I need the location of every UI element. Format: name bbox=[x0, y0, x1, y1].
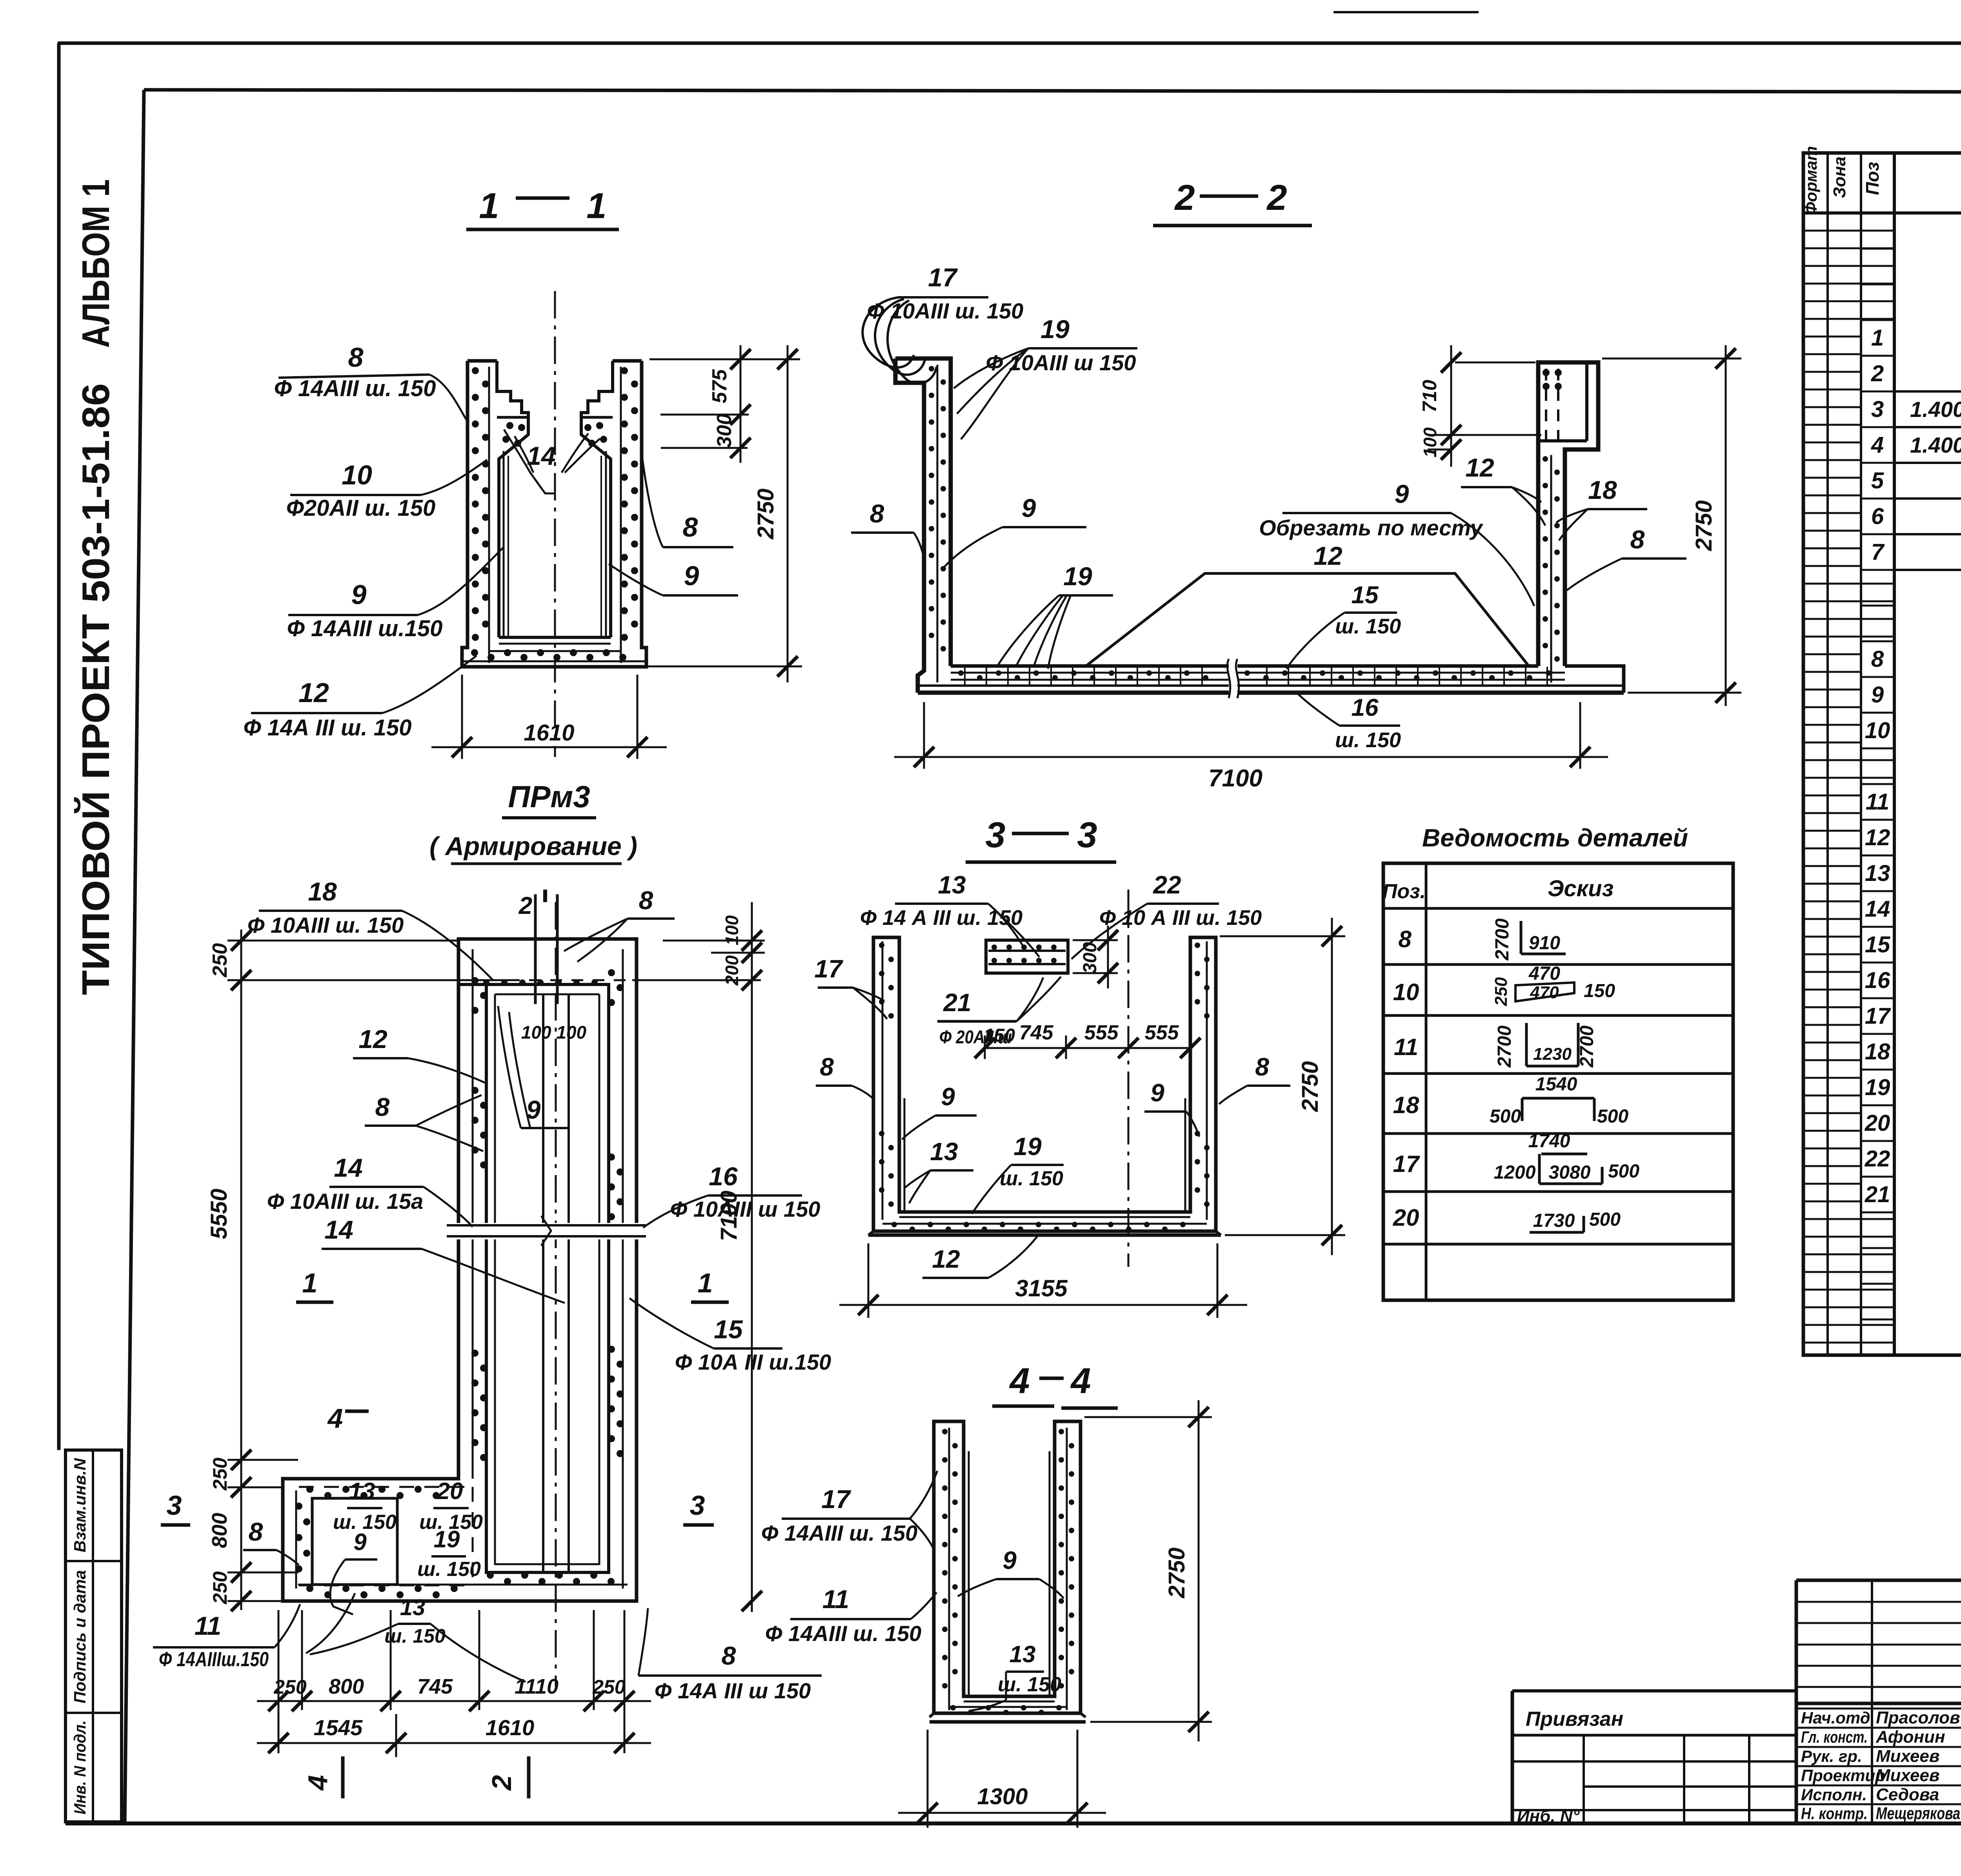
svg-text:1.400-15. В1. 130-02: 1.400-15. В1. 130-02 bbox=[1910, 433, 1961, 457]
svg-text:Ф 14А III ш 150: Ф 14А III ш 150 bbox=[655, 1678, 811, 1703]
svg-text:1540: 1540 bbox=[1535, 1074, 1577, 1095]
label 21 Ф20АIIIш 150 (sec 3-3) bbox=[937, 977, 1061, 1047]
svg-text:300: 300 bbox=[1080, 942, 1101, 973]
svg-text:4: 4 bbox=[1070, 1361, 1091, 1401]
svg-text:14: 14 bbox=[334, 1153, 362, 1182]
svg-text:14: 14 bbox=[324, 1215, 353, 1244]
svg-text:АЛЬБОМ 1: АЛЬБОМ 1 bbox=[74, 179, 117, 348]
svg-text:8: 8 bbox=[348, 342, 364, 373]
label 20 ш.150 in extension (plan) bbox=[419, 1478, 483, 1534]
svg-text:500: 500 bbox=[1608, 1161, 1639, 1182]
svg-text:13: 13 bbox=[400, 1595, 426, 1620]
label 12 Ф14АIII ш.150 (sec 1-1) bbox=[244, 656, 477, 741]
svg-text:3: 3 bbox=[985, 815, 1005, 855]
svg-text:500: 500 bbox=[1490, 1106, 1521, 1127]
vedomost row 8 bbox=[1398, 918, 1566, 961]
svg-text:800: 800 bbox=[208, 1513, 231, 1548]
svg-text:2750: 2750 bbox=[1297, 1061, 1323, 1112]
svg-text:1200: 1200 bbox=[1494, 1162, 1536, 1183]
svg-text:10: 10 bbox=[1865, 718, 1890, 743]
svg-text:2: 2 bbox=[1871, 361, 1884, 386]
svg-text:555: 555 bbox=[1084, 1021, 1119, 1044]
svg-text:11: 11 bbox=[195, 1611, 222, 1640]
label 9 Обрезать по месту (sec 2-2) bbox=[1259, 479, 1534, 606]
svg-text:5: 5 bbox=[1871, 468, 1884, 493]
svg-text:Ведомость деталей: Ведомость деталей bbox=[1422, 824, 1688, 852]
svg-text:6: 6 bbox=[1871, 504, 1884, 529]
svg-text:1230: 1230 bbox=[1533, 1044, 1572, 1064]
svg-text:1.400-15. В1. 550-06: 1.400-15. В1. 550-06 bbox=[1910, 397, 1961, 422]
svg-text:470: 470 bbox=[1530, 983, 1559, 1002]
label 18 Ф10АIII ш.150 (plan) bbox=[247, 877, 493, 981]
dimension 1610 (sec 1-1) bbox=[431, 675, 667, 759]
svg-text:19: 19 bbox=[1865, 1075, 1890, 1100]
label 8 left (sec 3-3) bbox=[816, 1053, 875, 1100]
plan centre axis bbox=[555, 902, 557, 1687]
section 1-1 centre axis bbox=[554, 291, 556, 757]
svg-text:9: 9 bbox=[1871, 682, 1884, 708]
vedomost row 18 bbox=[1393, 1074, 1629, 1127]
svg-text:17: 17 bbox=[821, 1485, 851, 1514]
label 12 (sec 3-3) bbox=[922, 1236, 1037, 1278]
svg-text:12: 12 bbox=[1465, 453, 1494, 482]
section 2-2 wall meshes bbox=[929, 365, 1565, 682]
svg-text:Ф 14АIII ш. 150: Ф 14АIII ш. 150 bbox=[765, 1621, 922, 1646]
svg-text:ш. 150: ш. 150 bbox=[1000, 1167, 1063, 1190]
left margin table (Взам.инв.N / Подпись и дата / Инв.N подл.) bbox=[65, 1450, 122, 1822]
plan subtitle (Армирование) bbox=[429, 832, 637, 864]
label 16 ш.150 (sec 2-2) bbox=[1295, 691, 1401, 752]
svg-text:Ф 10АIII ш. 150: Ф 10АIII ш. 150 bbox=[247, 913, 404, 937]
svg-text:Поз.: Поз. bbox=[1383, 880, 1426, 903]
title block sign-off grid bbox=[1796, 1580, 1961, 1823]
svg-text:Михеев: Михеев bbox=[1876, 1766, 1939, 1785]
svg-text:Исполн.: Исполн. bbox=[1801, 1785, 1867, 1804]
svg-text:ПРм3: ПРм3 bbox=[508, 779, 590, 814]
label 8 with fan (plan) bbox=[365, 1092, 483, 1151]
inner frame bottom bbox=[65, 1821, 1961, 1825]
label 12 near head (sec 2-2) bbox=[1461, 453, 1545, 526]
svg-text:Афонин: Афонин bbox=[1876, 1727, 1945, 1747]
svg-text:1610: 1610 bbox=[486, 1715, 535, 1740]
svg-text:Ф 14АIII ш.150: Ф 14АIII ш.150 bbox=[287, 616, 443, 641]
label 9 (plan) bbox=[498, 1006, 568, 1128]
svg-text:12: 12 bbox=[932, 1245, 960, 1273]
svg-text:20: 20 bbox=[1393, 1205, 1419, 1231]
section 2-2 floor stirrup ticks bbox=[965, 667, 1547, 686]
svg-text:8: 8 bbox=[639, 886, 653, 915]
label 9 in extension (plan) bbox=[330, 1529, 377, 1614]
section 1-1 wall reinforcement meshes bbox=[462, 367, 646, 663]
svg-text:Седова: Седова bbox=[1876, 1785, 1939, 1804]
label 8 Ф14АIII ш.150 (sec 1-1) bbox=[274, 342, 468, 422]
svg-text:575: 575 bbox=[708, 369, 731, 404]
svg-text:250: 250 bbox=[209, 943, 231, 978]
svg-text:18: 18 bbox=[1393, 1092, 1419, 1118]
svg-text:22: 22 bbox=[1865, 1146, 1890, 1172]
label 13 Ф14АIII ш.150 (sec 3-3) bbox=[860, 871, 1039, 957]
label 9 right (sec 3-3) bbox=[1144, 1079, 1199, 1137]
label 22 Ф10АIII ш.150 (sec 3-3) bbox=[1071, 871, 1262, 959]
svg-text:745: 745 bbox=[1019, 1021, 1054, 1044]
svg-text:8: 8 bbox=[683, 512, 698, 542]
svg-text:8: 8 bbox=[1630, 525, 1645, 554]
section 1-1 concrete outline bbox=[462, 361, 646, 667]
svg-text:4: 4 bbox=[1871, 432, 1884, 458]
sheet outer border top bbox=[58, 42, 1961, 45]
svg-text:ТИПОВОЙ ПРОЕКТ 503-1-51.86: ТИПОВОЙ ПРОЕКТ 503-1-51.86 bbox=[74, 383, 117, 995]
svg-text:100: 100 bbox=[1420, 427, 1440, 457]
svg-text:Ф 14АIII ш. 150: Ф 14АIII ш. 150 bbox=[761, 1521, 918, 1545]
svg-text:12: 12 bbox=[298, 677, 329, 708]
svg-text:Поз: Поз bbox=[1862, 162, 1883, 195]
svg-text:2750: 2750 bbox=[1164, 1547, 1190, 1598]
svg-text:7100: 7100 bbox=[1208, 765, 1262, 792]
svg-text:13: 13 bbox=[1010, 1641, 1036, 1667]
section 1-1 title bbox=[466, 186, 619, 229]
svg-text:9: 9 bbox=[1022, 493, 1036, 522]
dimension 7100 (sec 2-2) bbox=[894, 702, 1608, 792]
svg-text:10: 10 bbox=[1393, 979, 1419, 1005]
svg-text:Ф 10А III ш.150: Ф 10А III ш.150 bbox=[675, 1350, 831, 1374]
label 14 lower (plan) bbox=[322, 1215, 565, 1303]
svg-text:9: 9 bbox=[1002, 1546, 1017, 1574]
svg-text:910: 910 bbox=[1529, 933, 1560, 953]
svg-text:1: 1 bbox=[698, 1268, 713, 1298]
section 3-3 title bbox=[966, 815, 1116, 862]
plan break (соединение) bbox=[447, 1216, 646, 1246]
svg-text:21: 21 bbox=[1865, 1182, 1890, 1207]
vedomost row 11 bbox=[1394, 1023, 1597, 1068]
svg-text:9: 9 bbox=[351, 579, 367, 610]
svg-text:17: 17 bbox=[1865, 1003, 1891, 1029]
svg-text:3: 3 bbox=[167, 1490, 182, 1521]
svg-text:Ф 10АIII ш. 15а: Ф 10АIII ш. 15а bbox=[267, 1189, 424, 1214]
section 3-3 wall meshes bbox=[879, 941, 1210, 1232]
section 2-2 floor break lines bbox=[1227, 659, 1239, 698]
vedomost row 10 bbox=[1393, 963, 1615, 1006]
label 8 Ф14АIII ш 150 (plan bottom-right) bbox=[639, 1608, 822, 1703]
svg-text:13: 13 bbox=[1865, 861, 1890, 886]
svg-text:18: 18 bbox=[1865, 1039, 1890, 1064]
svg-text:22: 22 bbox=[1153, 871, 1181, 899]
label 10 Ф20АII ш.150 (sec 1-1) bbox=[286, 460, 487, 521]
svg-text:9: 9 bbox=[353, 1529, 367, 1555]
svg-text:Михеев: Михеев bbox=[1876, 1747, 1939, 1766]
svg-text:19: 19 bbox=[1041, 315, 1070, 344]
label 13 ш.150 lower (plan) bbox=[306, 1593, 526, 1682]
svg-text:Подпись и дата: Подпись и дата bbox=[71, 1570, 89, 1703]
svg-text:5550: 5550 bbox=[206, 1188, 232, 1239]
svg-text:250: 250 bbox=[209, 1457, 231, 1491]
section 3-3 centre axis bbox=[1128, 890, 1130, 1267]
section mark 3 right (plan) bbox=[683, 1490, 714, 1525]
svg-text:1730: 1730 bbox=[1533, 1210, 1575, 1231]
section mark 1 left (plan) bbox=[296, 1268, 333, 1302]
svg-text:1545: 1545 bbox=[314, 1715, 363, 1740]
svg-text:11: 11 bbox=[1394, 1034, 1418, 1060]
svg-text:2: 2 bbox=[518, 892, 532, 919]
svg-text:11: 11 bbox=[1866, 789, 1889, 815]
svg-text:Рук. гр.: Рук. гр. bbox=[1801, 1747, 1862, 1765]
svg-text:8: 8 bbox=[1255, 1053, 1269, 1081]
svg-text:7100: 7100 bbox=[716, 1190, 742, 1241]
svg-text:150: 150 bbox=[984, 1025, 1015, 1046]
svg-text:13: 13 bbox=[930, 1137, 958, 1166]
svg-text:500: 500 bbox=[1589, 1209, 1621, 1230]
label 15 ш.150 (sec 2-2) bbox=[1286, 582, 1401, 669]
section mark 2 bottom (plan) bbox=[486, 1756, 529, 1798]
plan right dimension 100/200 and 7100 bbox=[663, 902, 765, 1612]
svg-text:2700: 2700 bbox=[1494, 1025, 1515, 1068]
svg-text:15: 15 bbox=[1865, 932, 1890, 957]
svg-text:8: 8 bbox=[249, 1517, 263, 1546]
svg-text:ш. 150: ш. 150 bbox=[998, 1673, 1061, 1696]
svg-text:250: 250 bbox=[273, 1676, 307, 1698]
label 9 left (sec 3-3) bbox=[902, 1083, 977, 1139]
svg-text:1: 1 bbox=[479, 186, 499, 226]
svg-text:Эскиз: Эскиз bbox=[1548, 876, 1614, 901]
dimension 150 745 555 555 (sec 3-3) bbox=[975, 1021, 1201, 1059]
svg-text:3: 3 bbox=[1871, 397, 1884, 422]
vedomost row 17 bbox=[1393, 1131, 1640, 1184]
svg-text:ш. 150: ш. 150 bbox=[1335, 728, 1401, 752]
svg-text:Н. контр.: Н. контр. bbox=[1801, 1804, 1868, 1823]
svg-text:14: 14 bbox=[1865, 896, 1890, 922]
svg-text:Ф 14АIII ш. 150: Ф 14АIII ш. 150 bbox=[274, 376, 436, 401]
plan wall rebar dots bbox=[295, 969, 624, 1598]
svg-text:ш. 150: ш. 150 bbox=[417, 1558, 481, 1581]
svg-text:Ф 14АIIIш.150: Ф 14АIIIш.150 bbox=[159, 1648, 269, 1671]
dimension 2750 (sec 3-3) bbox=[1220, 918, 1345, 1255]
vedomost row 20 bbox=[1393, 1205, 1621, 1232]
svg-text:2700: 2700 bbox=[1577, 1025, 1597, 1068]
vedomost table grid bbox=[1383, 863, 1733, 1300]
svg-text:555: 555 bbox=[1145, 1021, 1179, 1044]
svg-text:3: 3 bbox=[690, 1490, 705, 1521]
svg-text:16: 16 bbox=[1352, 694, 1379, 721]
svg-text:9: 9 bbox=[684, 560, 699, 591]
svg-text:1110: 1110 bbox=[515, 1675, 558, 1698]
svg-text:Взам.инв.N: Взам.инв.N bbox=[71, 1457, 89, 1552]
svg-text:19: 19 bbox=[434, 1526, 460, 1552]
svg-text:9: 9 bbox=[1395, 479, 1409, 508]
svg-text:2750: 2750 bbox=[1691, 500, 1717, 551]
svg-text:1: 1 bbox=[586, 186, 606, 226]
svg-text:Формат: Формат bbox=[1802, 146, 1820, 215]
svg-text:Привязан: Привязан bbox=[1526, 1708, 1623, 1730]
svg-text:2: 2 bbox=[486, 1775, 517, 1791]
dimension 3155 (sec 3-3) bbox=[839, 1243, 1247, 1318]
svg-text:( Армирование ): ( Армирование ) bbox=[429, 832, 637, 861]
plan top end-wall inner line bbox=[458, 983, 486, 986]
plan extension opening bbox=[312, 1498, 397, 1585]
label 19 ш.150 in extension (plan) bbox=[417, 1526, 481, 1581]
section 2-2 concrete outline bbox=[895, 358, 1624, 693]
section 4-4 concrete outline bbox=[930, 1421, 1086, 1722]
svg-text:8: 8 bbox=[820, 1053, 834, 1081]
svg-text:8: 8 bbox=[722, 1641, 736, 1670]
svg-text:Ф 14 А III ш. 150: Ф 14 А III ш. 150 bbox=[860, 906, 1022, 930]
section 4-4 title bbox=[992, 1361, 1118, 1408]
bar 12 bent shape (sec 2-2) bbox=[1086, 573, 1529, 666]
section 2-2 head dashed bars bbox=[1543, 369, 1562, 439]
section mark 4 bottom (plan) bbox=[302, 1756, 343, 1798]
plan bottom dimension 1545/1610 bbox=[257, 1714, 651, 1757]
label 9 (sec 2-2) bbox=[944, 493, 1086, 567]
svg-text:2: 2 bbox=[1174, 178, 1195, 218]
svg-text:4: 4 bbox=[302, 1775, 333, 1791]
svg-text:7: 7 bbox=[1871, 539, 1885, 565]
svg-text:710: 710 bbox=[1419, 380, 1441, 413]
svg-text:3155: 3155 bbox=[1015, 1275, 1068, 1301]
svg-text:12: 12 bbox=[358, 1024, 387, 1054]
svg-text:Гл. конст.: Гл. конст. bbox=[1801, 1728, 1868, 1746]
vedomost header bbox=[1383, 876, 1614, 903]
svg-text:9: 9 bbox=[941, 1083, 955, 1111]
svg-text:100 100: 100 100 bbox=[521, 1022, 587, 1043]
dimension 2750 (sec 1-1) bbox=[646, 345, 802, 682]
svg-text:13: 13 bbox=[938, 871, 966, 899]
svg-text:500: 500 bbox=[1597, 1106, 1628, 1127]
scan artifact top edge bbox=[1333, 11, 1479, 13]
svg-text:11: 11 bbox=[822, 1585, 850, 1614]
svg-text:15: 15 bbox=[714, 1315, 743, 1344]
svg-text:ш. 150: ш. 150 bbox=[1335, 615, 1401, 638]
label 13 lower (sec 3-3) bbox=[904, 1137, 973, 1203]
svg-text:10: 10 bbox=[342, 460, 372, 490]
sign-off role names bbox=[1801, 1708, 1961, 1823]
svg-text:1: 1 bbox=[1871, 325, 1884, 351]
svg-text:12: 12 bbox=[1313, 541, 1343, 570]
plan pit opening bbox=[486, 984, 609, 1572]
svg-text:19: 19 bbox=[1013, 1132, 1042, 1161]
plan bottom dimension chain 250/800/745/1110/250 bbox=[257, 1610, 651, 1753]
label 13 ш.150 in extension (plan) bbox=[333, 1478, 397, 1534]
svg-text:1610: 1610 bbox=[524, 720, 574, 746]
svg-text:250: 250 bbox=[209, 1571, 231, 1605]
sheet outer border left bbox=[57, 43, 61, 1450]
svg-text:18: 18 bbox=[308, 877, 337, 906]
svg-text:Обрезать по месту: Обрезать по месту bbox=[1259, 515, 1484, 540]
svg-text:Проектир: Проектир bbox=[1801, 1766, 1885, 1785]
label 16 Ф10АIII ш 150 (plan) bbox=[643, 1162, 820, 1228]
svg-text:9: 9 bbox=[1150, 1079, 1164, 1107]
svg-text:800: 800 bbox=[329, 1675, 364, 1698]
label 9 right (sec 1-1) bbox=[609, 560, 738, 595]
svg-text:13: 13 bbox=[349, 1478, 375, 1504]
svg-text:3: 3 bbox=[1077, 815, 1097, 855]
svg-text:4: 4 bbox=[1009, 1361, 1030, 1401]
section mark 4 upper (plan) bbox=[327, 1403, 369, 1434]
spec table grid bbox=[1803, 153, 1961, 1355]
spec table data rows bbox=[1865, 325, 1961, 1314]
dimension 300 (sec 3-3) bbox=[1073, 926, 1118, 988]
spec table header bbox=[1802, 146, 1961, 215]
svg-text:17: 17 bbox=[928, 263, 958, 292]
label 17 (sec 3-3) bbox=[814, 955, 887, 1019]
svg-text:250: 250 bbox=[592, 1676, 626, 1698]
svg-text:8: 8 bbox=[1398, 926, 1412, 952]
label 15 Ф10АIII ш.150 (plan) bbox=[629, 1298, 831, 1374]
label 19 ш.150 (sec 3-3) bbox=[972, 1132, 1064, 1214]
dimension 1300 (sec 4-4) bbox=[898, 1730, 1106, 1828]
section 3-3 lintel bbox=[986, 940, 1068, 973]
section 2-2 title bbox=[1153, 178, 1312, 226]
svg-text:4: 4 bbox=[327, 1403, 343, 1434]
svg-text:1740: 1740 bbox=[1528, 1131, 1570, 1152]
plan bottom-mat bars 14/15 bbox=[543, 994, 569, 1572]
label 13 ш.150 (sec 4-4) bbox=[969, 1641, 1061, 1711]
svg-text:8: 8 bbox=[870, 499, 884, 528]
section mark 3 left (plan) bbox=[161, 1490, 190, 1525]
svg-text:17: 17 bbox=[1393, 1151, 1420, 1177]
svg-text:1300: 1300 bbox=[977, 1784, 1028, 1809]
label 17 Ф14АIII ш.150 (sec 4-4) bbox=[761, 1471, 937, 1548]
svg-text:8: 8 bbox=[1871, 646, 1884, 672]
label 11 Ф14АIII ш.150 (sec 4-4) bbox=[765, 1585, 937, 1646]
label 8 left (sec 2-2) bbox=[851, 499, 925, 562]
section mark 1 right (plan) bbox=[691, 1268, 729, 1302]
svg-text:Инв. N подл.: Инв. N подл. bbox=[71, 1720, 89, 1814]
label 8 right (sec 3-3) bbox=[1219, 1053, 1290, 1104]
svg-text:17: 17 bbox=[814, 955, 844, 983]
label 12 (plan) bbox=[353, 1024, 486, 1083]
title block outline bbox=[1512, 1580, 1961, 1823]
svg-text:2: 2 bbox=[1266, 178, 1287, 218]
label 8 near stub (plan) bbox=[564, 886, 675, 962]
dimension 575/300 (sec 1-1) bbox=[649, 345, 800, 463]
svg-text:2700: 2700 bbox=[1492, 918, 1513, 961]
svg-text:300: 300 bbox=[713, 414, 736, 448]
section 3-3 concrete outline bbox=[868, 937, 1221, 1235]
inner frame top bbox=[144, 90, 1961, 93]
svg-text:470: 470 bbox=[1528, 963, 1560, 984]
label 9 Ф14АIII ш.150 (sec 1-1) bbox=[287, 547, 504, 641]
plan hidden outline (dashed) of upper structure bbox=[299, 1487, 473, 1585]
svg-text:16: 16 bbox=[709, 1162, 738, 1191]
svg-text:3080: 3080 bbox=[1549, 1162, 1591, 1183]
svg-text:12: 12 bbox=[1865, 825, 1890, 850]
svg-text:Зона: Зона bbox=[1830, 156, 1849, 198]
svg-text:1: 1 bbox=[302, 1268, 318, 1298]
svg-text:Прасолов: Прасолов bbox=[1876, 1708, 1960, 1727]
svg-text:Инб. N°: Инб. N° bbox=[1517, 1807, 1580, 1826]
plan wall mesh lines bbox=[296, 949, 628, 1589]
svg-text:18: 18 bbox=[1588, 475, 1617, 504]
svg-text:250: 250 bbox=[1492, 977, 1511, 1006]
svg-text:150: 150 bbox=[1584, 981, 1615, 1001]
svg-text:Мещерякова: Мещерякова bbox=[1876, 1804, 1960, 1823]
svg-text:Нач.отд.: Нач.отд. bbox=[1801, 1709, 1875, 1727]
svg-text:20: 20 bbox=[1865, 1110, 1890, 1136]
svg-text:Ф20АII ш. 150: Ф20АII ш. 150 bbox=[286, 495, 436, 521]
label 17 Ф10АIII ш.150 (sec 2-2) bbox=[862, 263, 1023, 384]
svg-text:19: 19 bbox=[1063, 562, 1092, 591]
plan left dimension chain 250/5550/250/800/250 bbox=[206, 930, 761, 1611]
dimension 710/100 (sec 2-2) bbox=[1419, 345, 1541, 467]
svg-text:100: 100 bbox=[722, 915, 742, 945]
dimension 2750 (sec 4-4) bbox=[1084, 1400, 1212, 1741]
svg-text:8: 8 bbox=[375, 1092, 390, 1121]
label 14 Ф10АIII ш.15а (plan) bbox=[267, 1153, 473, 1227]
dimension 2750 (sec 2-2) bbox=[1602, 345, 1741, 706]
svg-text:745: 745 bbox=[417, 1675, 453, 1698]
svg-text:200: 200 bbox=[722, 955, 742, 986]
label 8 right (sec 1-1) bbox=[642, 459, 733, 547]
svg-text:15: 15 bbox=[1352, 582, 1379, 609]
label 8 right (sec 2-2) bbox=[1567, 525, 1686, 590]
